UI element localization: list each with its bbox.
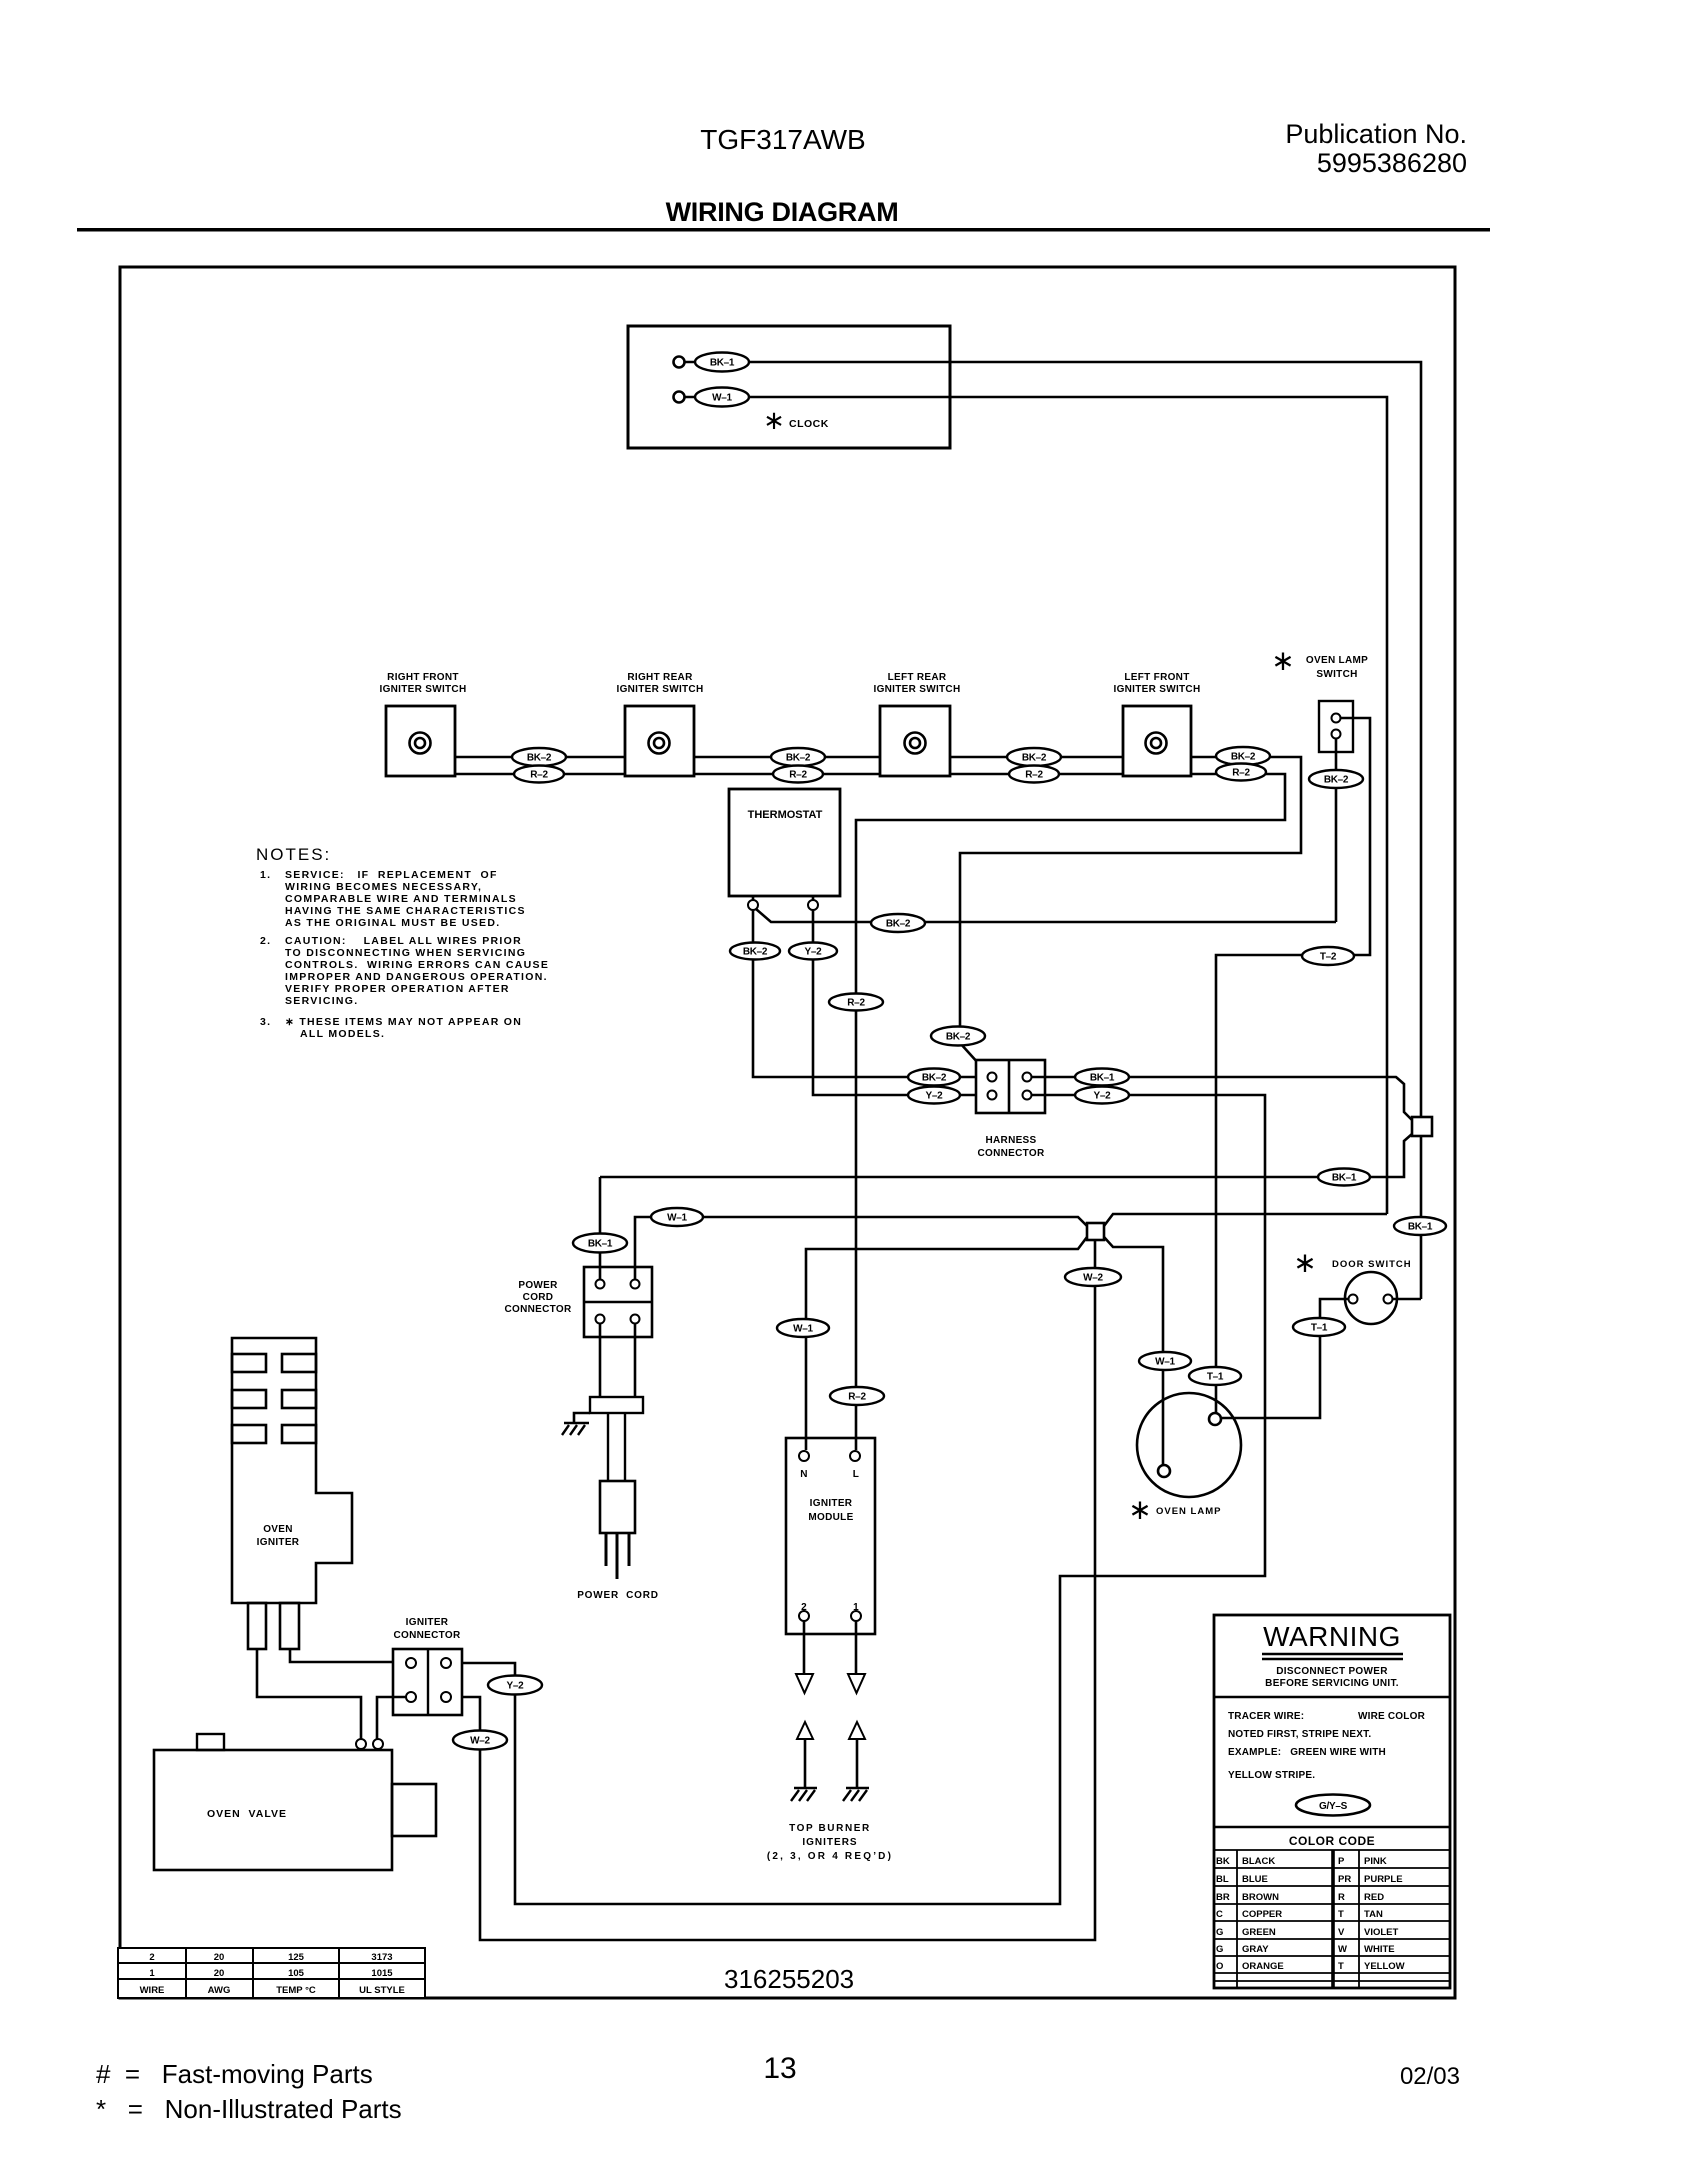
oval Y-2 right of igniter connector bbox=[488, 1676, 542, 1695]
svg-text:IGNITER: IGNITER bbox=[810, 1498, 853, 1509]
tracer example oval G/Y-S bbox=[1296, 1795, 1370, 1816]
svg-text:CLOCK: CLOCK bbox=[789, 418, 829, 430]
svg-text:RIGHT FRONT: RIGHT FRONT bbox=[387, 672, 459, 683]
svg-text:CAUTION: LABEL ALL WIRES PR: CAUTION: LABEL ALL WIRES PRIOR bbox=[285, 935, 522, 947]
svg-text:WIRING BECOMES NECESSARY,: WIRING BECOMES NECESSARY, bbox=[285, 881, 482, 893]
wire W-1 junction to igniter module N bbox=[806, 1237, 1087, 1450]
svg-text:BK–1: BK–1 bbox=[588, 1239, 613, 1250]
warning box outer bbox=[1214, 1615, 1450, 1988]
oven lamp switch pins bbox=[1332, 714, 1341, 723]
svg-text:BLUE: BLUE bbox=[1242, 1874, 1268, 1885]
svg-text:IGNITER SWITCH: IGNITER SWITCH bbox=[617, 684, 704, 695]
svg-text:NOTES:: NOTES: bbox=[256, 845, 331, 864]
plug receptacle square on W-1 wire bbox=[1412, 1117, 1432, 1136]
svg-text:COLOR CODE: COLOR CODE bbox=[1289, 1834, 1375, 1848]
oval R-2 on long vertical bbox=[829, 994, 883, 1011]
oval Y-2 into harness left bottom bbox=[908, 1087, 960, 1104]
thermostat box bbox=[729, 789, 840, 896]
svg-text:N: N bbox=[800, 1469, 808, 1480]
wire W-2 junction down to bottom run bbox=[451, 1240, 1095, 1940]
oval Y-2 below thermostat right pin bbox=[789, 943, 837, 960]
wire BK-2 from LF down to harness run bbox=[960, 757, 1301, 1043]
harness connector box bbox=[976, 1060, 1045, 1113]
svg-text:∗ THESE ITEMS MAY NOT APPEAR O: ∗ THESE ITEMS MAY NOT APPEAR ON bbox=[285, 1016, 522, 1028]
svg-text:∗: ∗ bbox=[1128, 1494, 1151, 1525]
label oval BK-1 clock bbox=[695, 353, 749, 372]
svg-text:COMPARABLE WIRE AND TERMINALS: COMPARABLE WIRE AND TERMINALS bbox=[285, 893, 517, 905]
svg-text:YELLOW STRIPE.: YELLOW STRIPE. bbox=[1228, 1770, 1315, 1781]
oven igniter prongs bbox=[248, 1603, 266, 1649]
oval R-2 LR-LF bbox=[1009, 766, 1059, 783]
wire oven igniter left prong to oven valve bbox=[257, 1649, 361, 1739]
wire BK-1 harness to plug symbol and back to power cord connector bbox=[600, 1077, 1412, 1177]
svg-text:CONTROLS. WIRING ERRORS CAN C: CONTROLS. WIRING ERRORS CAN CAUSE bbox=[285, 959, 549, 971]
svg-text:W–2: W–2 bbox=[470, 1736, 490, 1747]
svg-text:R–2: R–2 bbox=[847, 998, 865, 1009]
clock pin 1 bbox=[674, 357, 685, 368]
wire igniter connector left bottom pin to oven valve bbox=[377, 1697, 406, 1739]
svg-text:OVEN: OVEN bbox=[263, 1524, 293, 1535]
wire BK-2 oven lamp switch down bbox=[1335, 739, 1338, 922]
color code table grid bbox=[1214, 1850, 1450, 1988]
svg-text:BK–1: BK–1 bbox=[1090, 1073, 1115, 1084]
outer diagram border bbox=[120, 267, 1455, 1998]
oval Y-2 right of harness bbox=[1075, 1087, 1129, 1104]
svg-text:Y–2: Y–2 bbox=[507, 1681, 525, 1692]
right front igniter switch box bbox=[386, 706, 455, 776]
wire Y-2 thermostat right pin to harness bbox=[813, 910, 988, 1095]
ground symbol bbox=[564, 1413, 590, 1423]
heading rule bbox=[77, 228, 1490, 232]
svg-text:G: G bbox=[1216, 1927, 1223, 1938]
svg-text:BK–2: BK–2 bbox=[1022, 753, 1047, 764]
oval BK-2 RF-RR bbox=[512, 748, 566, 766]
svg-text:IGNITER SWITCH: IGNITER SWITCH bbox=[874, 684, 961, 695]
svg-text:02/03: 02/03 bbox=[1400, 2063, 1460, 2090]
oval BK-2 above harness bbox=[931, 1027, 985, 1046]
svg-text:CONNECTOR: CONNECTOR bbox=[505, 1304, 572, 1315]
svg-text:TAN: TAN bbox=[1364, 1909, 1383, 1920]
svg-text:P: P bbox=[1338, 1856, 1345, 1867]
svg-text:R–2: R–2 bbox=[1025, 770, 1043, 781]
oven valve box bbox=[154, 1750, 392, 1870]
door switch circle bbox=[1345, 1272, 1397, 1324]
svg-text:316255203: 316255203 bbox=[724, 1964, 854, 1994]
output arrow down pin 2 bbox=[803, 1621, 806, 1674]
svg-text:GREEN: GREEN bbox=[1242, 1927, 1276, 1938]
wire T-2 oven lamp switch to oven lamp bbox=[1216, 718, 1370, 1413]
svg-text:BK–2: BK–2 bbox=[1231, 752, 1256, 763]
svg-text:RIGHT REAR: RIGHT REAR bbox=[627, 672, 693, 683]
svg-text:BLACK: BLACK bbox=[1242, 1856, 1275, 1867]
svg-text:* = Non-Illustrated Parts: * = Non-Illustrated Parts bbox=[96, 2094, 402, 2124]
svg-text:R–2: R–2 bbox=[848, 1392, 866, 1403]
svg-text:3173: 3173 bbox=[371, 1952, 392, 1963]
svg-text:WIRE: WIRE bbox=[140, 1985, 165, 1996]
svg-text:WIRE COLOR: WIRE COLOR bbox=[1358, 1711, 1426, 1722]
svg-text:L: L bbox=[853, 1469, 859, 1480]
svg-text:TOP BURNER: TOP BURNER bbox=[789, 1823, 871, 1834]
svg-text:W–1: W–1 bbox=[712, 393, 732, 404]
svg-text:2.: 2. bbox=[260, 935, 271, 947]
svg-text:1.: 1. bbox=[260, 869, 271, 881]
wire W-1 junction to clock riser bbox=[1104, 1214, 1387, 1226]
color code table text bbox=[1216, 1856, 1405, 1972]
svg-text:W–1: W–1 bbox=[667, 1213, 687, 1224]
oval BK-2 on thermostat-lampswitch run bbox=[871, 914, 925, 932]
svg-text:125: 125 bbox=[288, 1952, 305, 1963]
svg-text:# = Fast-moving Parts: # = Fast-moving Parts bbox=[96, 2059, 373, 2089]
svg-text:T–1: T–1 bbox=[1207, 1372, 1224, 1383]
svg-text:AWG: AWG bbox=[208, 1985, 231, 1996]
svg-text:T–1: T–1 bbox=[1311, 1323, 1328, 1334]
oven valve terminals bbox=[356, 1739, 366, 1749]
svg-text:WHITE: WHITE bbox=[1364, 1944, 1395, 1955]
svg-text:R–2: R–2 bbox=[530, 770, 548, 781]
top burner igniter arrow up right bbox=[849, 1722, 865, 1739]
oval T-2 bbox=[1302, 947, 1354, 965]
svg-text:PR: PR bbox=[1338, 1874, 1351, 1885]
svg-text:ALL MODELS.: ALL MODELS. bbox=[300, 1028, 385, 1040]
output arrow down pin 1 bbox=[855, 1621, 858, 1674]
diagonal BK-2 into harness pin bbox=[960, 1043, 988, 1074]
wire BK-1 oval on clock riser bbox=[1394, 1217, 1446, 1235]
svg-text:EXAMPLE: GREEN WIRE WITH: EXAMPLE: GREEN WIRE WITH bbox=[1228, 1747, 1386, 1758]
svg-text:PURPLE: PURPLE bbox=[1364, 1874, 1403, 1885]
svg-text:BK–1: BK–1 bbox=[710, 358, 735, 369]
svg-text:∗: ∗ bbox=[1293, 1247, 1316, 1278]
svg-text:20: 20 bbox=[214, 1968, 225, 1979]
wire R-2 down to igniter module L (oval only, line drawn above) bbox=[830, 1387, 884, 1405]
oval BK-2 below oven lamp switch bbox=[1309, 770, 1363, 788]
svg-text:POWER CORD: POWER CORD bbox=[577, 1590, 659, 1601]
thermostat pins bbox=[752, 896, 755, 900]
svg-text:20: 20 bbox=[214, 1952, 225, 1963]
wire T-1 door switch left pin to oven lamp bbox=[1221, 1299, 1348, 1418]
svg-text:RED: RED bbox=[1364, 1892, 1384, 1903]
right rear igniter switch box bbox=[625, 706, 694, 776]
svg-text:WARNING: WARNING bbox=[1263, 1621, 1401, 1652]
wire BK-1 from clock to right side bbox=[685, 362, 1421, 1299]
svg-text:TGF317AWB: TGF317AWB bbox=[700, 124, 865, 155]
svg-text:LEFT REAR: LEFT REAR bbox=[888, 672, 947, 683]
svg-text:IGNITER: IGNITER bbox=[406, 1617, 449, 1628]
svg-text:Publication No.: Publication No. bbox=[1285, 119, 1467, 149]
svg-text:IGNITERS: IGNITERS bbox=[802, 1837, 857, 1848]
svg-text:3.: 3. bbox=[260, 1016, 271, 1028]
svg-text:LEFT FRONT: LEFT FRONT bbox=[1124, 672, 1189, 683]
svg-text:BK–2: BK–2 bbox=[1324, 775, 1349, 786]
wire pair RR to LR bbox=[694, 756, 880, 759]
svg-text:VIOLET: VIOLET bbox=[1364, 1927, 1399, 1938]
wire BK-1 stub above PCC bbox=[599, 1177, 602, 1279]
wire oven igniter right prong to igniter connector bbox=[290, 1649, 406, 1662]
svg-text:MODULE: MODULE bbox=[808, 1512, 853, 1523]
oval BK-2 below thermostat left pin bbox=[730, 943, 780, 960]
svg-text:IGNITER SWITCH: IGNITER SWITCH bbox=[1114, 684, 1201, 695]
svg-text:C: C bbox=[1216, 1909, 1223, 1920]
svg-text:BK–2: BK–2 bbox=[743, 947, 768, 958]
oven valve top bump bbox=[197, 1734, 224, 1750]
svg-text:T: T bbox=[1338, 1909, 1344, 1920]
oval BK-2 after LF bbox=[1216, 747, 1270, 765]
wire Y-2 harness right to bottom loop bbox=[451, 1095, 1265, 1904]
svg-text:R–2: R–2 bbox=[789, 770, 807, 781]
svg-text:∗: ∗ bbox=[763, 405, 785, 435]
svg-text:NOTED FIRST, STRIPE NEXT.: NOTED FIRST, STRIPE NEXT. bbox=[1228, 1729, 1371, 1740]
igniter module pins N and L bbox=[799, 1451, 809, 1461]
oval W-2 below igniter connector bbox=[453, 1731, 507, 1750]
svg-text:IMPROPER AND DANGEROUS OPERATI: IMPROPER AND DANGEROUS OPERATION. bbox=[285, 971, 548, 983]
plug prongs bbox=[605, 1533, 608, 1566]
svg-text:W–2: W–2 bbox=[1083, 1273, 1103, 1284]
wire W-1 from clock down right side bbox=[685, 397, 1387, 1214]
wire W-1 junction to oven lamp bbox=[1104, 1237, 1163, 1465]
oval BK-1 above PCC bbox=[573, 1234, 627, 1253]
wire R-2 from LF down to thermostat run bbox=[856, 774, 1285, 1450]
svg-text:O: O bbox=[1216, 1961, 1223, 1972]
svg-text:T: T bbox=[1338, 1961, 1344, 1972]
svg-text:CONNECTOR: CONNECTOR bbox=[978, 1148, 1045, 1159]
tracer wire text bbox=[1228, 1711, 1426, 1781]
svg-text:13: 13 bbox=[763, 2052, 796, 2085]
svg-text:COPPER: COPPER bbox=[1242, 1909, 1282, 1920]
oven lamp pins bbox=[1158, 1465, 1170, 1477]
oval R-2 RR-LR bbox=[773, 766, 823, 783]
svg-text:Y–2: Y–2 bbox=[805, 947, 823, 958]
svg-text:Y–2: Y–2 bbox=[1094, 1091, 1112, 1102]
svg-text:∗: ∗ bbox=[1271, 645, 1294, 676]
oval BK-1 right of harness bbox=[1075, 1069, 1129, 1086]
svg-text:BK–2: BK–2 bbox=[946, 1032, 971, 1043]
svg-text:BL: BL bbox=[1216, 1874, 1229, 1885]
svg-text:BK–2: BK–2 bbox=[786, 753, 811, 764]
door switch pins bbox=[1349, 1295, 1358, 1304]
svg-text:BK–1: BK–1 bbox=[1408, 1222, 1433, 1233]
svg-text:POWER: POWER bbox=[518, 1280, 558, 1291]
harness connector pins bbox=[988, 1073, 997, 1082]
label oval W-1 clock bbox=[695, 388, 749, 407]
oven igniter grid rects bbox=[232, 1354, 266, 1372]
svg-text:PINK: PINK bbox=[1364, 1856, 1387, 1867]
svg-text:IGNITER: IGNITER bbox=[257, 1537, 300, 1548]
svg-text:HAVING THE SAME CHARACTERISTIC: HAVING THE SAME CHARACTERISTICS bbox=[285, 905, 526, 917]
svg-text:1015: 1015 bbox=[371, 1968, 393, 1979]
svg-text:DOOR SWITCH: DOOR SWITCH bbox=[1332, 1259, 1412, 1270]
svg-text:OVEN LAMP: OVEN LAMP bbox=[1306, 655, 1368, 666]
oven lamp switch box bbox=[1319, 701, 1353, 752]
wire BK-2 thermostat left pin to harness bbox=[753, 910, 988, 1077]
left front igniter switch box bbox=[1123, 706, 1191, 776]
svg-text:SERVICING.: SERVICING. bbox=[285, 995, 359, 1007]
notes item 1 bbox=[260, 869, 549, 1040]
svg-text:ORANGE: ORANGE bbox=[1242, 1961, 1284, 1972]
oval BK-2 RR-LR bbox=[771, 748, 825, 766]
igniter module box bbox=[786, 1438, 875, 1634]
svg-text:BK: BK bbox=[1216, 1856, 1230, 1867]
clock pin 2 bbox=[674, 392, 685, 403]
svg-text:GRAY: GRAY bbox=[1242, 1944, 1269, 1955]
svg-text:V: V bbox=[1338, 1927, 1345, 1938]
svg-text:BK–2: BK–2 bbox=[527, 753, 552, 764]
svg-text:W: W bbox=[1338, 1944, 1347, 1955]
svg-text:Y–2: Y–2 bbox=[926, 1091, 944, 1102]
svg-text:BROWN: BROWN bbox=[1242, 1892, 1279, 1903]
color code divider bbox=[1214, 1826, 1450, 1828]
oval T-1 above oven lamp bbox=[1189, 1367, 1241, 1385]
svg-text:THERMOSTAT: THERMOSTAT bbox=[748, 809, 823, 821]
oval R-2 after LF bbox=[1216, 764, 1266, 781]
splice junction square bbox=[1087, 1223, 1104, 1240]
svg-text:VERIFY PROPER OPERATION AFTER: VERIFY PROPER OPERATION AFTER bbox=[285, 983, 510, 995]
wire BK-2 thermostat diagonal to lamp switch bbox=[756, 909, 1336, 922]
svg-text:5995386280: 5995386280 bbox=[1317, 148, 1467, 178]
svg-text:SERVICE: IF REPLACEMENT OF: SERVICE: IF REPLACEMENT OF bbox=[285, 869, 498, 881]
oval BK-1 on return wire bbox=[1318, 1169, 1370, 1186]
oval T-1 below door switch bbox=[1293, 1318, 1345, 1336]
oval R-2 RF-RR bbox=[514, 766, 564, 783]
svg-text:BR: BR bbox=[1216, 1892, 1230, 1903]
svg-text:BEFORE SERVICING UNIT.: BEFORE SERVICING UNIT. bbox=[1265, 1678, 1399, 1689]
svg-text:2: 2 bbox=[149, 1952, 154, 1963]
wire pair RF to RR bbox=[455, 756, 625, 759]
power cord terminal bar bbox=[599, 1324, 602, 1397]
igniter connector box bbox=[393, 1649, 462, 1715]
svg-text:G/Y–S: G/Y–S bbox=[1319, 1801, 1348, 1812]
oven lamp circle bbox=[1137, 1393, 1241, 1497]
svg-text:IGNITER SWITCH: IGNITER SWITCH bbox=[380, 684, 467, 695]
left rear igniter switch box bbox=[880, 706, 950, 776]
oval W-2 below junction bbox=[1065, 1268, 1121, 1286]
svg-text:BK–2: BK–2 bbox=[886, 919, 911, 930]
svg-text:W–1: W–1 bbox=[793, 1324, 813, 1335]
wire W-1 PCC to junction bbox=[635, 1217, 1087, 1279]
svg-text:G: G bbox=[1216, 1944, 1223, 1955]
clock box bbox=[628, 326, 950, 448]
svg-text:OVEN LAMP: OVEN LAMP bbox=[1156, 1506, 1221, 1517]
oval W-1 on PCC wire bbox=[651, 1208, 703, 1226]
power cord plug body bbox=[600, 1481, 635, 1533]
svg-text:R: R bbox=[1338, 1892, 1345, 1903]
oval BK-2 LR-LF bbox=[1007, 748, 1061, 766]
svg-text:SWITCH: SWITCH bbox=[1316, 669, 1357, 680]
svg-text:YELLOW: YELLOW bbox=[1364, 1961, 1405, 1972]
oven igniter outline bbox=[232, 1338, 352, 1603]
svg-text:BK–2: BK–2 bbox=[922, 1073, 947, 1084]
svg-text:HARNESS: HARNESS bbox=[986, 1135, 1037, 1146]
svg-text:CONNECTOR: CONNECTOR bbox=[394, 1630, 461, 1641]
svg-text:TO DISCONNECTING WHEN SERVICIN: TO DISCONNECTING WHEN SERVICING bbox=[285, 947, 526, 959]
power cord lines bbox=[607, 1413, 609, 1481]
oval BK-2 into harness left top bbox=[908, 1069, 960, 1086]
svg-text:TEMP °C: TEMP °C bbox=[276, 1985, 316, 1996]
svg-text:DISCONNECT POWER: DISCONNECT POWER bbox=[1276, 1666, 1388, 1677]
svg-text:1: 1 bbox=[149, 1968, 155, 1979]
warning divider bbox=[1214, 1696, 1450, 1698]
igniter connector pins bbox=[406, 1658, 416, 1668]
top burner igniter arrow up left bbox=[797, 1722, 813, 1739]
svg-text:T–2: T–2 bbox=[1320, 952, 1337, 963]
svg-text:(2, 3, OR 4 REQ’D): (2, 3, OR 4 REQ’D) bbox=[767, 1851, 893, 1862]
svg-text:R–2: R–2 bbox=[1232, 768, 1250, 779]
svg-text:BK–1: BK–1 bbox=[1332, 1173, 1357, 1184]
svg-text:W–1: W–1 bbox=[1155, 1357, 1175, 1368]
svg-text:OVEN VALVE: OVEN VALVE bbox=[207, 1808, 287, 1820]
svg-text:WIRING DIAGRAM: WIRING DIAGRAM bbox=[666, 197, 899, 227]
wire pair LR to LF bbox=[950, 756, 1123, 759]
oven valve side extension bbox=[392, 1784, 436, 1836]
oval W-1 above igniter module bbox=[777, 1319, 829, 1337]
power cord connector box bbox=[584, 1267, 652, 1337]
svg-text:CORD: CORD bbox=[523, 1292, 554, 1303]
oval W-1 above oven lamp bbox=[1139, 1352, 1191, 1370]
power cord connector pins bbox=[596, 1280, 605, 1289]
wire door switch right pin to BK-1 riser bbox=[1393, 1298, 1421, 1301]
svg-text:AS THE ORIGINAL MUST BE USED.: AS THE ORIGINAL MUST BE USED. bbox=[285, 917, 500, 929]
svg-text:105: 105 bbox=[288, 1968, 305, 1979]
wire gauge table bbox=[118, 1948, 425, 1998]
svg-text:TRACER WIRE:: TRACER WIRE: bbox=[1228, 1711, 1304, 1722]
svg-text:UL STYLE: UL STYLE bbox=[359, 1985, 405, 1996]
